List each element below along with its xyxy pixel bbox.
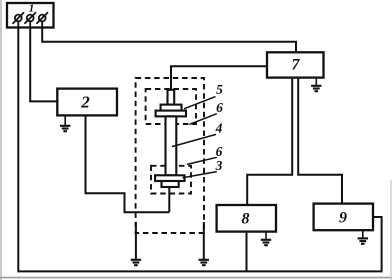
svg-text:4: 4 xyxy=(215,121,223,136)
svg-text:5: 5 xyxy=(216,82,223,97)
svg-text:1: 1 xyxy=(29,3,35,15)
svg-text:8: 8 xyxy=(242,211,250,228)
svg-text:3: 3 xyxy=(215,158,223,173)
svg-text:2: 2 xyxy=(80,93,90,112)
svg-text:6: 6 xyxy=(216,144,223,159)
svg-text:9: 9 xyxy=(339,210,347,227)
svg-text:6: 6 xyxy=(216,100,223,115)
svg-text:7: 7 xyxy=(292,57,301,74)
